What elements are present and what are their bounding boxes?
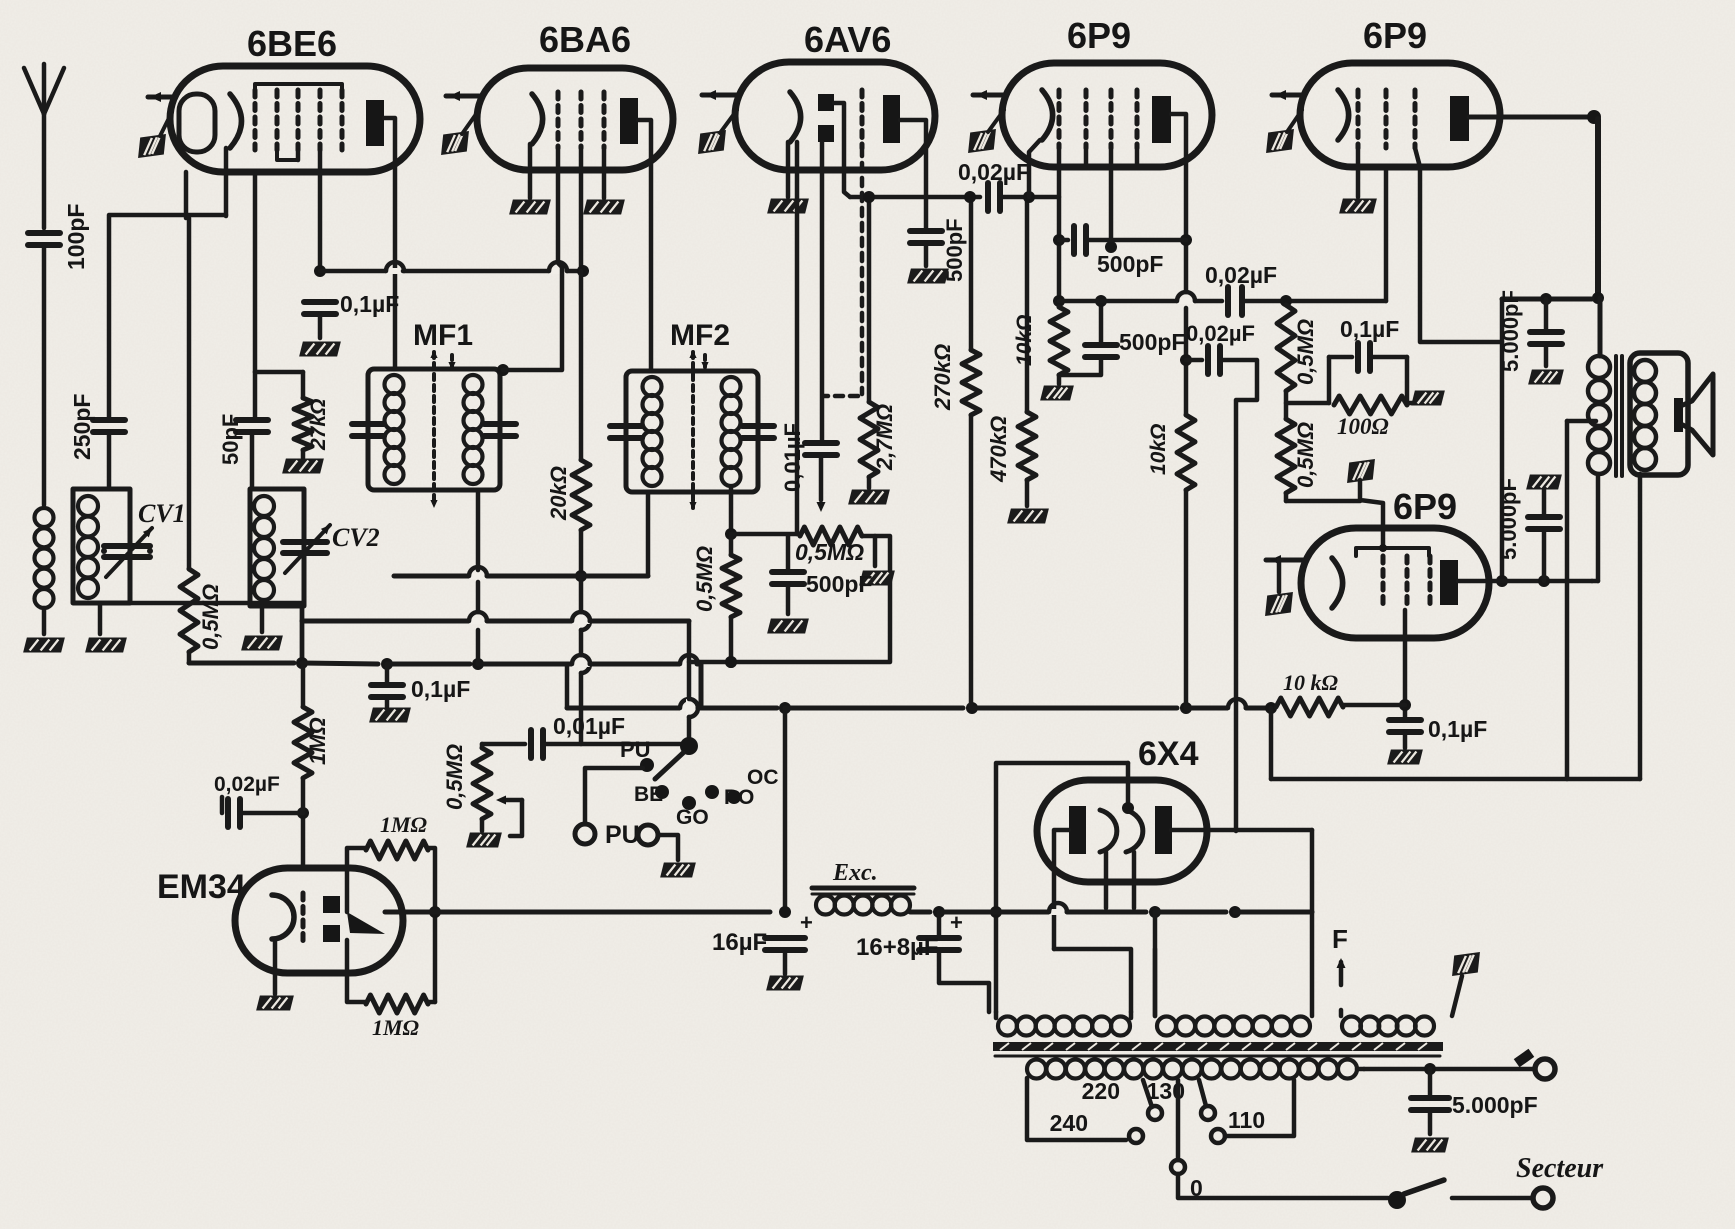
6P9 pin wires [1029,140,1040,197]
wire 6BA6 plate to MF2 [638,120,651,371]
capacitor 500pF detector [786,536,791,570]
svg-text:100pF: 100pF [63,204,89,270]
6AV6 diode plates [818,94,834,111]
capacitor 0,02uF AF [1225,287,1231,315]
resistor 1M feedback top [347,848,366,912]
capacitor 0,02uF eye [220,797,225,813]
6BE6 internal shield wire [255,84,342,90]
6P9 heater lead [973,93,1004,98]
switch mains [1388,1191,1406,1209]
ground [1407,401,1420,406]
svg-text:250pF: 250pF [69,394,95,460]
6P9 plate [1450,96,1469,141]
resistor 20k [579,271,584,460]
svg-text:240: 240 [1050,1110,1088,1136]
capacitor MF1 secondary [484,421,516,427]
6BA6 pin wires [528,144,533,198]
svg-text:0,1µF: 0,1µF [340,291,399,317]
terminal PU upper [640,758,654,772]
wire 6X4 output box [996,763,1128,1012]
6AV6 plate [883,95,900,143]
6BA6 plate [620,98,638,144]
resistor 0,5M MF2 secondary [729,488,734,534]
wire coupling [850,195,980,200]
wire 6AV6 plate to 500pF [900,120,926,229]
wire 6AV6 diode to AF takeoff [834,103,850,197]
6P9 plate [1440,560,1458,605]
svg-text:16+8µF: 16+8µF [856,934,939,961]
wire plate bus [1502,297,1592,302]
speaker cone [1674,398,1683,432]
svg-text:6BA6: 6BA6 [539,19,631,60]
capacitor 5.000pF output plate [1526,475,1562,490]
wire screen [1415,148,1502,342]
svg-text:BE: BE [634,783,663,806]
6P9 heater chassis [1277,560,1282,592]
capacitor 0,01uF detector [805,440,837,446]
svg-text:0,5MΩ: 0,5MΩ [1293,319,1318,385]
svg-text:Secteur: Secteur [1516,1153,1604,1184]
EM34 cathode ground [273,940,278,994]
wire B plus bus [565,664,570,708]
svg-text:PU: PU [620,737,651,762]
capacitor 16uF [765,935,805,941]
svg-text:0,02µF: 0,02µF [958,159,1030,185]
svg-text:0,01µF: 0,01µF [780,423,805,492]
capacitor 0,1uF AVC [385,664,390,683]
capacitor 0,02uF screen [1186,358,1202,363]
svg-text:500pF: 500pF [1097,251,1163,277]
6P9 cathode [1042,90,1053,140]
capacitor 0,01uF PU [480,744,485,748]
svg-text:+: + [950,910,963,935]
wire cathode [1403,610,1408,718]
capacitor 250pF [93,417,125,423]
tap 220 [1143,1080,1152,1107]
svg-text:5.000pF: 5.000pF [1498,290,1523,372]
wire CV1 bottom [130,603,302,663]
svg-text:16µF: 16µF [712,929,767,956]
transformer core [993,1042,1443,1051]
6X4 cathode arcs [1100,810,1117,852]
svg-text:EM34: EM34 [157,868,246,906]
svg-text:2,7MΩ: 2,7MΩ [872,404,897,471]
wire AF coupling [1059,299,1177,304]
svg-text:27kΩ: 27kΩ [307,399,330,451]
terminal PU jacks [575,824,595,844]
wire 6P9 plate line [1171,114,1186,292]
svg-text:0,02µF: 0,02µF [214,773,280,796]
wire filter node [783,708,788,912]
EM34 shadow wedge [347,912,385,934]
svg-text:50pF: 50pF [218,414,243,465]
ground [23,638,65,653]
svg-text:6P9: 6P9 [1067,15,1131,56]
svg-text:1MΩ: 1MΩ [305,717,330,765]
svg-text:PU: PU [605,821,640,849]
tap 240 [1129,1129,1143,1143]
resistor 100 ohm [1405,357,1410,403]
transformer HV secondary 2 [1157,1017,1176,1036]
6P9 cathode [1332,558,1343,608]
6P9 grids [1057,90,1062,148]
resistor 10k cathode output [1276,698,1343,716]
svg-text:6AV6: 6AV6 [804,19,891,60]
tap 130 [1199,1080,1206,1106]
wire primary tap feedback [1567,419,1596,424]
svg-text:0,5MΩ: 0,5MΩ [795,539,864,565]
tap 240 wire [1027,1078,1126,1140]
EM34 cathode [272,895,294,939]
svg-text:Exc.: Exc. [832,860,878,886]
ground [1411,1138,1449,1153]
switch contact PO [705,785,719,799]
resistor 470k [1025,197,1030,412]
6X4 plates [1069,806,1086,854]
resistor 0,5M volume [800,527,862,545]
ground [1040,386,1074,401]
ground [873,536,878,566]
wire 6AV6 diode dashed [860,148,865,394]
wire 6BA6 screen line [579,148,584,271]
terminal mains bottom [1533,1188,1553,1208]
svg-text:MF2: MF2 [670,319,730,352]
svg-text:0,02µF: 0,02µF [1186,321,1255,346]
svg-text:0,5MΩ: 0,5MΩ [198,584,223,650]
svg-text:470kΩ: 470kΩ [986,416,1011,483]
speaker frame [1630,353,1688,475]
chassis tap [1344,459,1377,483]
wire plate drop from primary [1596,474,1601,581]
capacitor 5.000pF mains [1428,1069,1433,1096]
svg-text:270kΩ: 270kΩ [930,344,955,411]
wire 6X4 left plate [1054,830,1069,949]
wire audio bus right [910,910,930,915]
wire to 6P9 output grid [1284,493,1289,501]
capacitor 0,02uF coupling [985,183,991,211]
switch lever [655,753,683,779]
capacitor 5.000pF plate [1544,299,1549,330]
resistor 10k screen [1177,415,1195,490]
capacitor 50pF [253,372,258,418]
wire ground bus [187,652,192,663]
capacitor 0,1uF tone [1329,355,1352,360]
switch contact OC [727,790,741,804]
tap 110 [1211,1129,1225,1143]
svg-text:OC: OC [747,766,779,789]
6BA6 heater chassis [438,131,471,155]
ground 6BA6 cathode [509,200,551,215]
svg-text:+: + [800,910,813,935]
capacitor MF2 secondary [742,423,774,429]
6BA6 heater lead [446,94,479,99]
ground [1007,509,1049,524]
ground [299,342,341,357]
svg-text:CV2: CV2 [332,523,380,552]
svg-text:6BE6: 6BE6 [247,23,337,64]
svg-text:5.000pF: 5.000pF [1452,1092,1538,1118]
tap 0 [1176,1080,1181,1160]
wire bus B+ MF [394,574,470,579]
6BA6 grids [556,92,561,148]
ground [1528,370,1564,385]
wire EM34 target to audio bus [385,910,770,915]
EM34 grid [301,893,306,943]
switch wafer pivot [680,737,698,755]
6BE6 plate [366,100,384,146]
antenna [24,68,44,114]
node MF1 secondary top [497,364,509,376]
6P9 heater lead [1272,93,1302,98]
variable capacitor CV1 [101,548,107,554]
6P9 grids [1356,90,1361,148]
capacitor MF2 primary [610,423,642,429]
resistor 1M grid [294,707,312,778]
wire mains switch [1178,1174,1388,1198]
svg-text:0,1µF: 0,1µF [1340,316,1399,342]
ground CV2 [260,606,265,632]
svg-text:0,5MΩ: 0,5MΩ [1293,422,1318,488]
6P9 internal shield [1356,548,1429,556]
6AV6 heater chassis [695,130,728,154]
potentiometer 0,5M volume [473,748,491,819]
wire grid pin [253,172,258,372]
svg-text:0,01µF: 0,01µF [553,713,625,739]
svg-text:10kΩ: 10kΩ [1147,424,1170,475]
wire from AVC bus [687,621,692,699]
wire MF1 secondary return [476,490,481,570]
svg-text:6P9: 6P9 [1393,486,1457,527]
6BA6 cathode [532,94,543,144]
wire grid1 to 250pF [109,215,226,418]
6P9 grids [1381,556,1386,610]
svg-text:500pF: 500pF [1119,329,1185,355]
CV1 tank coil [73,489,130,603]
svg-text:GO: GO [676,806,709,829]
6BE6 heater lead [148,95,172,100]
svg-text:1MΩ: 1MΩ [372,1015,420,1040]
wire secondary return [1638,474,1643,779]
svg-text:10 kΩ: 10 kΩ [1283,670,1339,695]
6BE6 heater chassis [135,134,168,158]
capacitor 0,1uF cathode [1389,717,1421,723]
svg-text:0,1µF: 0,1µF [1428,716,1487,742]
chassis heater [1449,952,1482,976]
wire 6X4 right plate [1171,828,1312,833]
6P9 plate [1152,96,1171,143]
potentiometer wiper [502,798,522,803]
resistor 0,5M [180,569,198,652]
svg-text:6P9: 6P9 [1363,15,1427,56]
capacitor 500pF IF bypass [910,228,942,234]
ground 27k [282,459,324,474]
wire 6AV6 grid line [795,142,800,534]
transformer HV secondary 1 [998,1017,1017,1036]
ground [848,490,890,505]
ground [1387,750,1423,765]
wire mains live [1357,1067,1364,1072]
wire volume node [731,532,797,537]
resistor 27k [255,370,303,375]
transformer primary [1027,1060,1046,1079]
wire cathode pin down [184,172,189,218]
svg-text:MF1: MF1 [413,319,473,352]
CV2 tank coil [250,489,304,606]
6AV6 heater lead [702,93,737,98]
resistor 0,5M grid leak [1277,305,1295,391]
resistor 0,5M lower [1277,419,1295,493]
svg-text:0,5MΩ: 0,5MΩ [442,744,467,810]
svg-text:1MΩ: 1MΩ [380,812,428,837]
wire 6X4 cathode top [1126,763,1131,806]
output transformer secondary [1634,360,1656,382]
wire CV2 bottom to bus [300,606,305,663]
wire EM34 grid [301,813,306,868]
wire plate [1458,579,1592,584]
wire 6BA6 grid to MF1 [503,148,562,370]
svg-text:10kΩ: 10kΩ [1013,315,1036,366]
capacitor 500pF grid [1059,238,1068,243]
6P9 cathode [1338,90,1349,140]
antenna coil [35,508,54,527]
6AV6 cathode ground [786,142,791,197]
wire feedback bottom [1271,777,1640,782]
svg-text:0,02µF: 0,02µF [1205,262,1277,288]
6P9 heater chassis [1263,129,1296,153]
node AVC junction [314,265,326,277]
wire MF2 primary bottom to bus [646,492,651,576]
svg-text:0,1µF: 0,1µF [411,676,470,702]
6AV6 grid [860,90,865,148]
wire HV winding link [1054,949,1131,1012]
svg-text:CV1: CV1 [138,499,186,528]
ground [466,833,502,848]
capacitor 16+8uF [937,912,942,936]
ground [369,708,411,723]
svg-text:110: 110 [1228,1107,1265,1133]
output transformer primary [1588,356,1610,378]
terminal mains top [1535,1059,1555,1079]
resistor 2,7M [867,197,872,402]
6AV6 cathode [790,92,801,142]
variable capacitor CV2 [283,539,327,545]
ground PU [660,863,696,878]
svg-text:6X4: 6X4 [1138,735,1199,773]
svg-text:220: 220 [1082,1078,1120,1104]
6P9 heater lead [1266,558,1303,563]
svg-text:100Ω: 100Ω [1337,414,1389,439]
svg-text:500pF: 500pF [806,571,872,597]
ground [907,269,949,284]
resistor 10k cathode [1050,307,1068,375]
ground CV1 left [98,603,103,634]
ground [766,976,804,991]
ground [767,619,809,634]
wire 6AV6 diode to detector [820,142,825,441]
switch contact GO [682,796,696,810]
resistor 1M feedback bottom [347,940,366,1002]
6BE6 grids [253,90,258,150]
wire main audio bus [988,910,1049,915]
svg-text:0,5MΩ: 0,5MΩ [692,546,717,612]
wire tone node [1286,401,1329,406]
capacitor 0,1uF [304,299,336,305]
wire AVC bus [320,269,387,274]
EM34 deflectors [323,896,340,913]
svg-text:20kΩ: 20kΩ [546,466,571,521]
6P9 cathode ground [1356,148,1361,197]
wire 6X4 heater pins [1104,852,1109,908]
transformer core [1614,356,1618,476]
svg-text:5.000pF: 5.000pF [1496,478,1521,560]
capacitor MF1 primary [352,421,384,427]
resistor 270k [969,197,974,350]
6BE6 cathode [179,94,215,152]
6BE6 pin wires [224,148,229,216]
svg-text:F: F [1332,924,1348,954]
wire AVC bus lower [302,619,470,624]
switch contact BE [655,785,669,799]
transformer heater winding [1342,1017,1361,1036]
capacitor 100pF [28,230,60,236]
6P9 heater chassis [965,129,998,153]
ground 6BA6 suppressor [583,200,625,215]
wire plate to output transformer [1469,115,1592,120]
capacitor 500pF cathode [1059,357,1101,375]
